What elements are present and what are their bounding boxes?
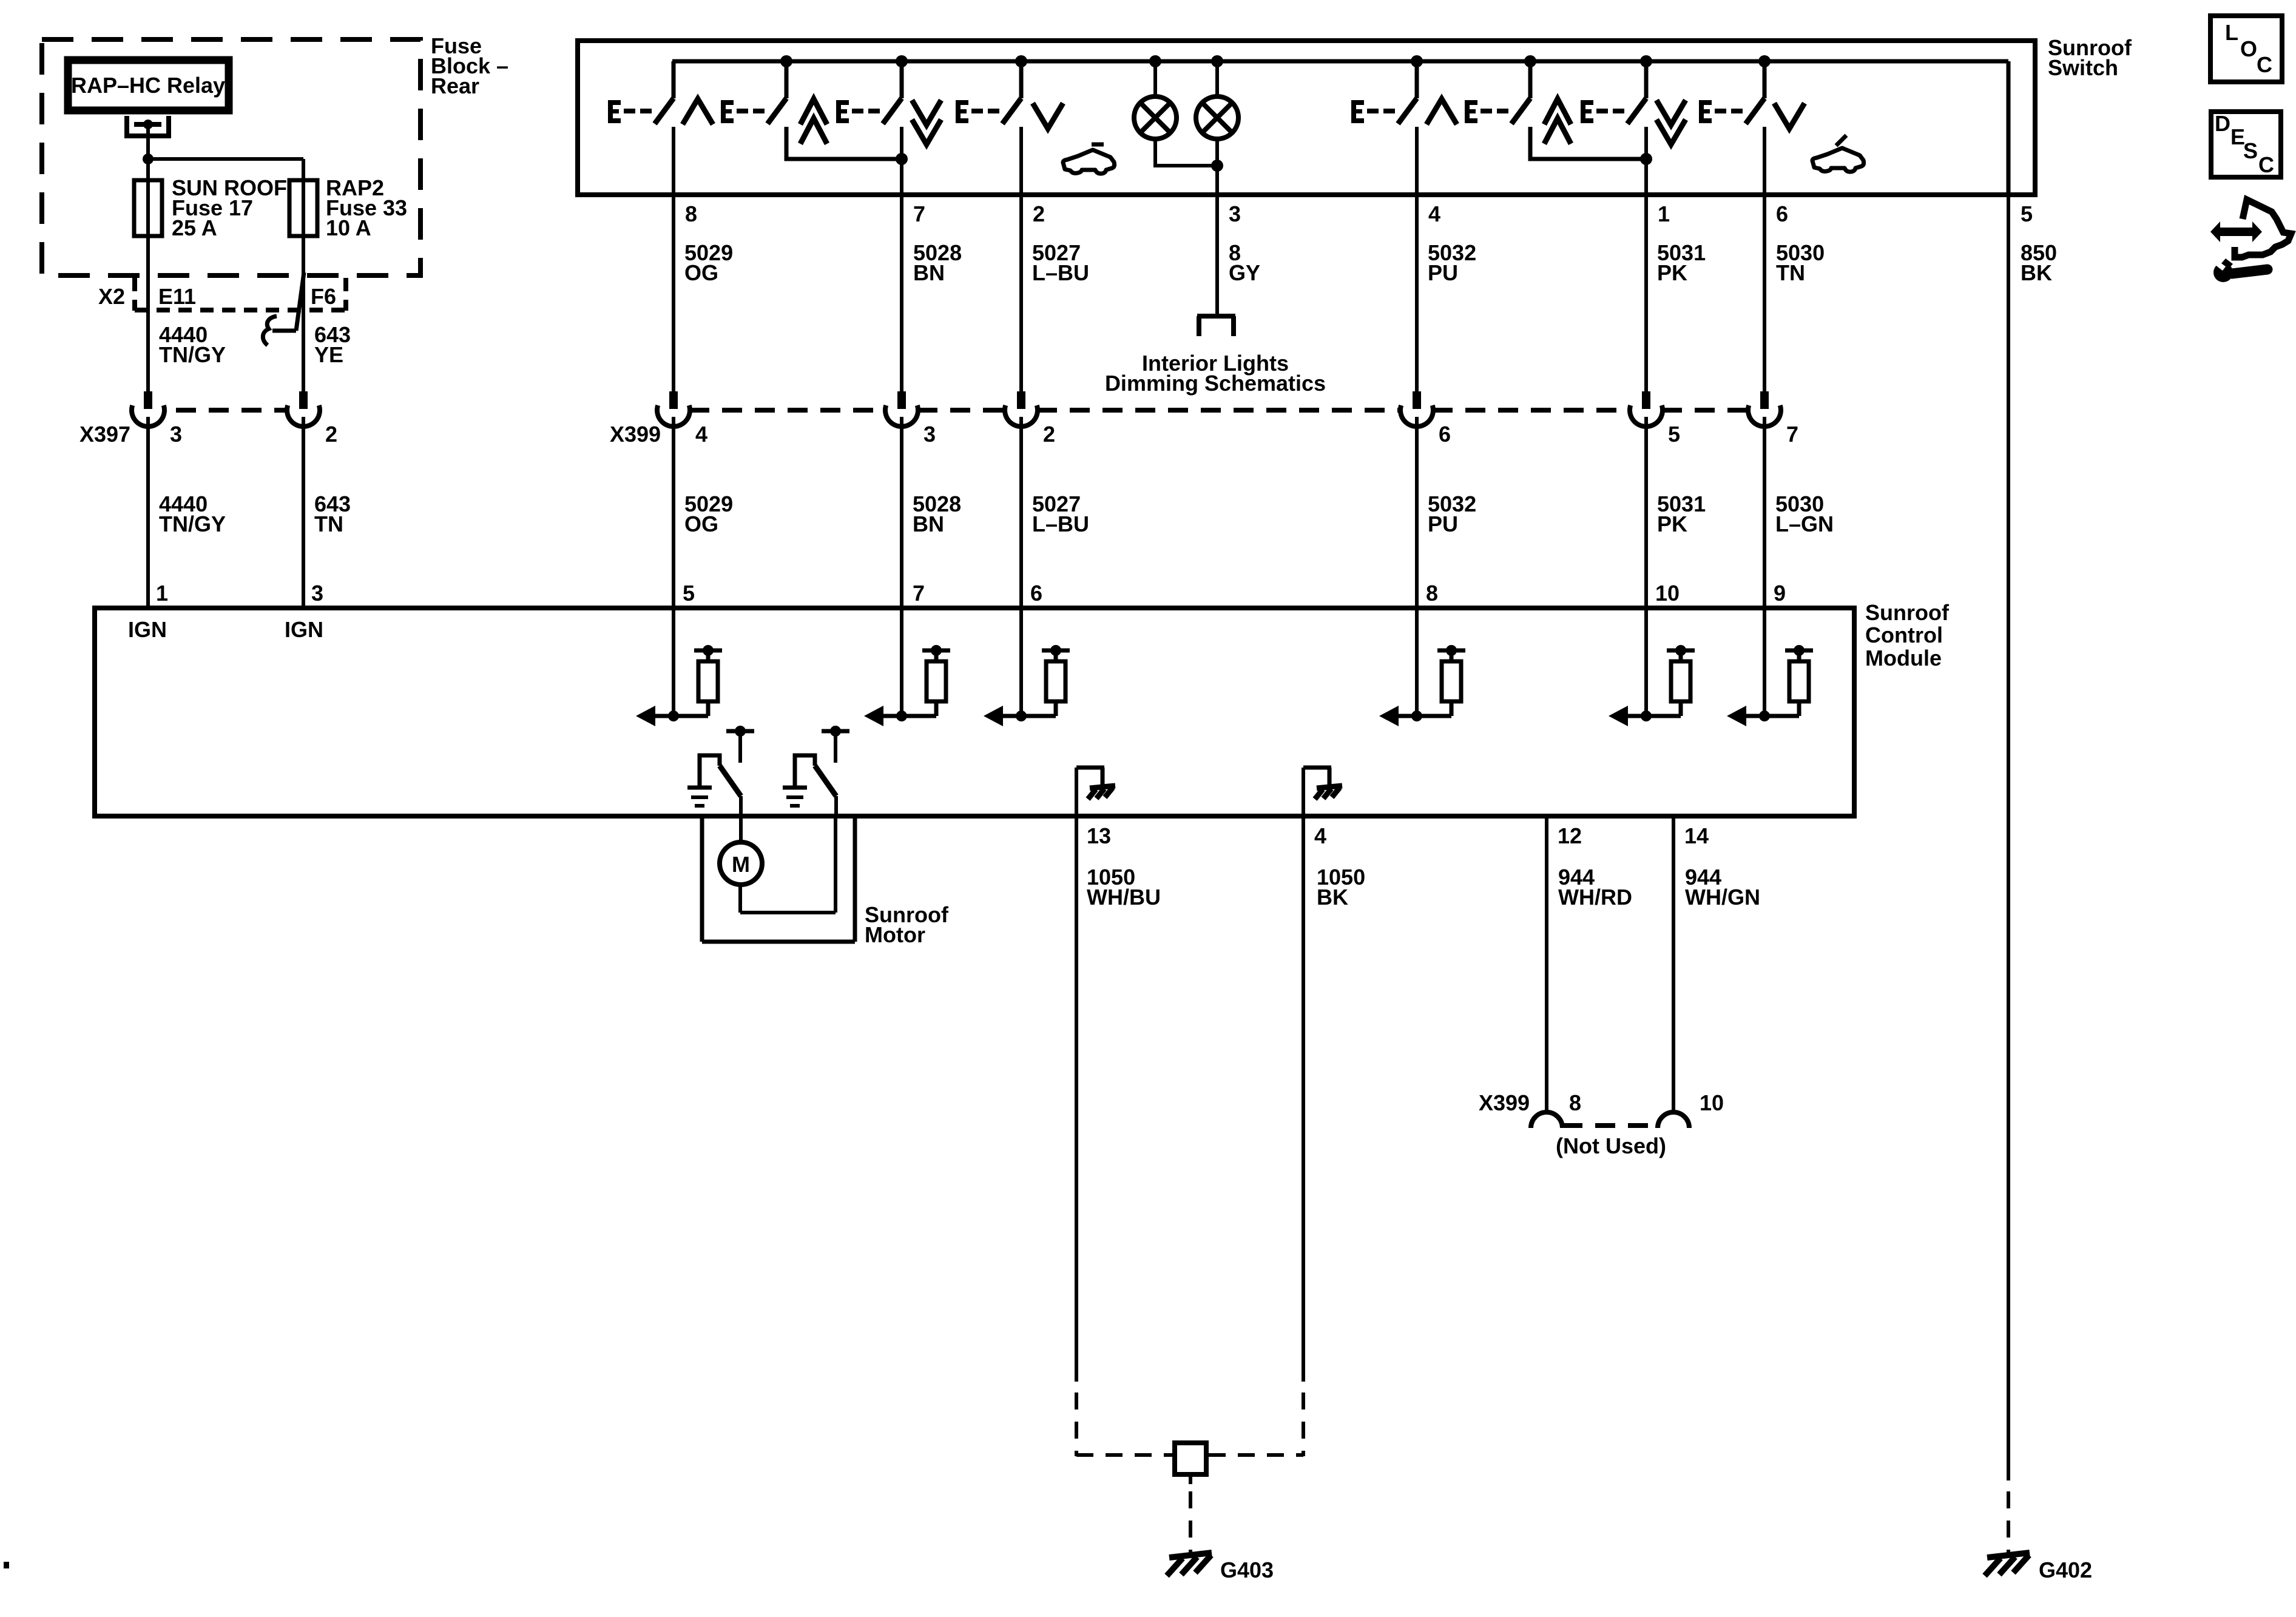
svg-text:2: 2: [325, 422, 337, 447]
sunroof switch 7 (vent open): [1581, 61, 1646, 124]
wire 4440 TN/GY label (lower): [159, 491, 226, 536]
svg-text:Sunroof: Sunroof: [1865, 600, 1950, 625]
sunroof motor M: [720, 842, 762, 885]
module input resistor at pin wire x=2713: [1609, 645, 1695, 726]
sunroof motor feed wire: [739, 816, 743, 843]
chevron down double (left): [912, 100, 941, 144]
svg-text:5: 5: [1668, 422, 1680, 447]
wire 1050 WH/BU dashed tail: [1075, 1393, 1078, 1456]
module input resistor at pin wire x=1683: [984, 645, 1070, 726]
switch internal bus: [672, 61, 2008, 195]
lamp bottoms link: [1155, 139, 1223, 172]
svg-text:L–GN: L–GN: [1775, 511, 1834, 536]
switch 3 output wire (pin 7): [900, 127, 903, 392]
svg-text:6: 6: [1439, 422, 1451, 447]
wire 5028 to module: [900, 417, 903, 716]
svg-text:8: 8: [685, 201, 697, 226]
sunroof switch 3 (vent open): [836, 61, 902, 124]
fuse F17 label: [172, 175, 287, 240]
svg-text:WH/RD: WH/RD: [1558, 885, 1632, 910]
sunroof switch 1 (open): [608, 61, 674, 124]
svg-text:7: 7: [913, 201, 925, 226]
wire 5030 TN label (upper): [1776, 240, 1825, 285]
svg-text:TN: TN: [1776, 260, 1805, 285]
svg-text:10: 10: [1700, 1090, 1724, 1115]
connector X2 left tick: [132, 278, 137, 311]
module driver switch to ground (motor left): [687, 726, 754, 816]
svg-text:10 A: 10 A: [326, 215, 371, 240]
sunroof motor return wire: [740, 816, 836, 913]
module input resistor at pin wire x=1486: [864, 645, 950, 726]
relay RAP-HC box: [68, 60, 229, 110]
wire 1050 BK label: [1317, 865, 1365, 910]
service icon panel outline: [2235, 200, 2291, 257]
svg-text:D: D: [2215, 111, 2230, 136]
wire 5027 label (lower): [1032, 491, 1089, 536]
svg-text:PK: PK: [1657, 511, 1687, 536]
dashed link to splice (right): [1209, 1453, 1303, 1457]
connector X397 pin 2 terminal: [287, 391, 320, 427]
wire 5027 to module: [1019, 417, 1023, 716]
svg-text:TN/GY: TN/GY: [159, 342, 226, 367]
fuse F17 SUN ROOF symbol: [134, 180, 162, 236]
wire 850 BK down right side: [2007, 195, 2010, 1480]
DESC box: [2211, 112, 2281, 177]
svg-text:Rear: Rear: [431, 73, 479, 98]
svg-text:13: 13: [1087, 823, 1111, 848]
connector X397 pin 3 terminal: [132, 391, 164, 427]
DESC letters: [2215, 111, 2274, 177]
wire 5032 to module: [1415, 417, 1419, 716]
module driver switch to ground (motor right): [783, 726, 849, 816]
wire 5031 label (lower): [1657, 491, 1706, 536]
wire 5029 OG label (upper): [684, 240, 733, 285]
svg-text:BK: BK: [1317, 885, 1348, 910]
sunroof control module box: [95, 608, 1854, 816]
svg-text:E11: E11: [158, 284, 196, 309]
svg-text:F6: F6: [311, 284, 336, 309]
wire 850 BK label: [2021, 240, 2057, 285]
sunroof switch box: [578, 41, 2035, 195]
wire 1050 WH/BU label: [1087, 865, 1161, 910]
sunroof switch 2 (vent close): [721, 61, 786, 124]
svg-text:C: C: [2258, 152, 2274, 177]
svg-text:WH/BU: WH/BU: [1087, 885, 1161, 910]
svg-text:OG: OG: [684, 260, 718, 285]
wire junction through SUN ROOF fuse down to X397: [146, 159, 150, 392]
wire 5032 label (lower): [1428, 491, 1476, 536]
svg-text:IGN: IGN: [285, 617, 323, 642]
service icon wrench: [2213, 258, 2267, 282]
wire 850 BK dashed tail: [2007, 1491, 2010, 1553]
switch 5 output wire (pin 4): [1415, 127, 1419, 392]
chevron down single (left): [1033, 103, 1063, 129]
svg-text:3: 3: [1229, 201, 1241, 226]
sunroof switch 5 (open): [1351, 61, 1417, 124]
module chassis ground symbol (pin 4): [1303, 768, 1342, 816]
svg-text:8: 8: [1426, 581, 1438, 606]
chevron up single (left): [683, 99, 713, 124]
wire 5029 to module: [672, 417, 675, 716]
svg-text:O: O: [2240, 36, 2257, 61]
wire 1050 WH/BU from pin 13: [1075, 816, 1078, 1382]
wire 1050 BK dashed tail: [1302, 1393, 1305, 1456]
lamp output wire (pin 3): [1215, 139, 1219, 316]
wire 1050 BK from pin 4: [1302, 816, 1305, 1382]
connector X399 pin 8 terminal (not used): [1531, 1112, 1562, 1128]
module input resistor at pin wire x=2908: [1727, 645, 1813, 726]
sunroof motor label: [865, 902, 949, 947]
LOC box: [2210, 16, 2282, 82]
wire 4440 TN/GY label (above X397): [159, 322, 226, 367]
connector X397 dashed link: [176, 408, 288, 413]
wire 643 TN to module pin 3: [302, 417, 305, 608]
connector X399 pin 5 terminal: [1630, 391, 1663, 427]
svg-text:4: 4: [1428, 201, 1440, 226]
page artifact dot bottom-left: [4, 1562, 9, 1568]
svg-text:G403: G403: [1220, 1558, 1274, 1582]
svg-text:Control: Control: [1865, 623, 1943, 647]
wire 5030 label (lower): [1775, 491, 1834, 536]
svg-text:3: 3: [923, 422, 936, 447]
svg-text:12: 12: [1558, 823, 1582, 848]
lamp (illumination) right: [1196, 61, 1238, 139]
module input resistor at pin wire x=2335: [1379, 645, 1465, 726]
svg-text:C: C: [2257, 52, 2272, 77]
sunroof switch label: [2048, 35, 2132, 80]
svg-text:PU: PU: [1428, 511, 1458, 536]
svg-text:25 A: 25 A: [172, 215, 217, 240]
svg-text:M: M: [732, 852, 750, 877]
wire 643 TN label (lower): [314, 491, 351, 536]
svg-text:3: 3: [170, 422, 182, 447]
svg-text:(Not Used): (Not Used): [1556, 1133, 1666, 1158]
wire 5031 PK label (upper): [1657, 240, 1706, 285]
sunroof control module label: [1865, 600, 1950, 670]
svg-text:4: 4: [1314, 823, 1326, 848]
connector X399 pin 2 terminal: [1005, 391, 1038, 427]
svg-text:Dimming Schematics: Dimming Schematics: [1105, 371, 1326, 396]
switch 4 output wire (pin 2): [1019, 127, 1023, 392]
sunroof switch 4 (close): [956, 61, 1021, 124]
sunroof motor loop right wire: [853, 816, 857, 942]
relay output contact bracket: [127, 116, 169, 136]
switch 6 output bracket to pin 1 node: [1530, 127, 1652, 165]
svg-text:6: 6: [1030, 581, 1042, 606]
svg-text:TN: TN: [314, 511, 343, 536]
wire 8 GY label: [1229, 240, 1260, 285]
svg-text:6: 6: [1776, 201, 1788, 226]
connector X399 pin 7 terminal: [1748, 391, 1781, 427]
svg-text:2: 2: [1033, 201, 1045, 226]
junction node (fuse feed): [143, 154, 154, 164]
svg-text:L: L: [2225, 20, 2238, 45]
chevron up double (left): [800, 99, 827, 144]
connector X399 dashed links: [689, 408, 1749, 413]
fuse F33 RAP2 symbol: [289, 180, 317, 236]
F6 takeout curl: [263, 316, 277, 345]
wire 5028 label (lower): [913, 491, 961, 536]
splice to ground stub: [1189, 1474, 1192, 1484]
bus junction dots: [780, 55, 1771, 67]
fuse block - rear dashed box: [42, 39, 420, 275]
svg-text:TN/GY: TN/GY: [159, 511, 226, 536]
svg-text:7: 7: [913, 581, 925, 606]
module input resistor at pin wire x=1110: [636, 645, 722, 726]
switch pin number labels: [685, 201, 2033, 226]
svg-text:14: 14: [1684, 823, 1709, 848]
svg-text:RAP–HC Relay: RAP–HC Relay: [71, 73, 225, 98]
dashed link to splice (left): [1076, 1453, 1172, 1457]
svg-text:GY: GY: [1229, 260, 1260, 285]
wire 5029 label (lower): [684, 491, 733, 536]
wire 944 WH/RD label: [1558, 865, 1632, 910]
svg-text:S: S: [2243, 138, 2258, 163]
sunroof switch 6 (vent close): [1465, 61, 1530, 124]
car icon (sunroof tilt, right): [1812, 135, 1864, 172]
ground G402 symbol: [1985, 1553, 2030, 1576]
switch 2 output bracket to pin 7 node: [786, 127, 908, 165]
svg-text:L–BU: L–BU: [1032, 260, 1089, 285]
wire 4440 TN/GY to module pin 1: [146, 417, 150, 608]
svg-text:9: 9: [1774, 581, 1786, 606]
wire branch junction to RAP2 fuse: [148, 159, 303, 392]
interior lights off-page bracket: [1197, 316, 1235, 336]
F6 takeout lead (diagonal): [272, 272, 304, 331]
svg-text:X399: X399: [1479, 1090, 1530, 1115]
wire 5027 L-BU label (upper): [1032, 240, 1089, 285]
svg-text:Switch: Switch: [2048, 55, 2118, 80]
service icon double arrow: [2210, 221, 2262, 242]
svg-text:2: 2: [1043, 422, 1055, 447]
connector X399 lower dashed link: [1562, 1123, 1658, 1128]
wire 944 WH/GN label: [1685, 865, 1760, 910]
svg-text:Module: Module: [1865, 646, 1942, 670]
wire 5031 to module: [1644, 417, 1648, 716]
svg-text:4: 4: [695, 422, 707, 447]
wire 5028 BN label (upper): [913, 240, 962, 285]
svg-text:PK: PK: [1657, 260, 1687, 285]
connector X399 pin 3 terminal: [885, 391, 918, 427]
module chassis ground symbol (pin 13): [1076, 768, 1115, 816]
switch 8 output wire (pin 6): [1763, 127, 1766, 392]
module pin number labels (top): [156, 581, 1786, 606]
wire 944 WH/GN from pin 14: [1672, 816, 1675, 1112]
svg-text:X399: X399: [610, 422, 661, 447]
chevron down single (right): [1774, 103, 1805, 129]
connector X399 pin 6 terminal: [1400, 391, 1433, 427]
car icon (sunroof slide, left): [1063, 144, 1115, 174]
svg-text:BK: BK: [2021, 260, 2052, 285]
connector X2 dashed bracket line: [135, 308, 346, 312]
svg-text:1: 1: [156, 581, 168, 606]
wire 5030 to module: [1763, 417, 1766, 716]
svg-text:10: 10: [1655, 581, 1680, 606]
module pin number labels (bottom): [1087, 823, 1709, 848]
fuse block label: [431, 33, 508, 98]
svg-text:YE: YE: [314, 342, 343, 367]
svg-text:L–BU: L–BU: [1032, 511, 1089, 536]
switch 7 output wire (pin 1): [1644, 127, 1648, 392]
svg-text:5: 5: [2021, 201, 2033, 226]
svg-text:5: 5: [683, 581, 695, 606]
svg-text:X2: X2: [98, 284, 125, 309]
sunroof motor loop bottom wire: [702, 940, 855, 944]
connector X399 pin 4 terminal: [657, 391, 690, 427]
switch 1 output wire (pin 8): [672, 127, 675, 392]
svg-text:BN: BN: [913, 511, 944, 536]
svg-text:8: 8: [1569, 1090, 1581, 1115]
wire 944 WH/RD from pin 12: [1545, 816, 1548, 1112]
svg-text:BN: BN: [913, 260, 945, 285]
lamp (illumination) left: [1134, 61, 1177, 139]
ground G403 symbol: [1167, 1553, 1212, 1576]
fuse F33 label: [326, 175, 407, 240]
wire 5032 PU label (upper): [1428, 240, 1476, 285]
dashed wire to G403: [1189, 1491, 1192, 1553]
LOC letters: [2225, 20, 2272, 77]
splice S403: [1175, 1443, 1206, 1474]
connector X2 right tick: [343, 278, 348, 311]
svg-text:IGN: IGN: [128, 617, 167, 642]
connector X399 pin 10 terminal (not used): [1658, 1112, 1689, 1128]
svg-text:Motor: Motor: [865, 922, 925, 947]
wire from relay contact to junction: [146, 124, 150, 159]
chevron up double (right): [1544, 99, 1571, 144]
chevron up single (right): [1427, 99, 1457, 124]
svg-text:OG: OG: [684, 511, 718, 536]
svg-text:3: 3: [311, 581, 323, 606]
chevron down double (right): [1656, 100, 1686, 144]
svg-text:WH/GN: WH/GN: [1685, 885, 1760, 910]
svg-text:X397: X397: [79, 422, 130, 447]
sunroof switch 8 (close): [1699, 61, 1764, 124]
wire 643 YE label (above X397): [314, 322, 351, 367]
svg-text:1: 1: [1658, 201, 1670, 226]
interior lights dimming schematics note: [1105, 351, 1326, 396]
sunroof motor loop left wire: [700, 816, 704, 942]
svg-text:G402: G402: [2039, 1558, 2092, 1582]
svg-text:7: 7: [1786, 422, 1798, 447]
svg-text:PU: PU: [1428, 260, 1458, 285]
